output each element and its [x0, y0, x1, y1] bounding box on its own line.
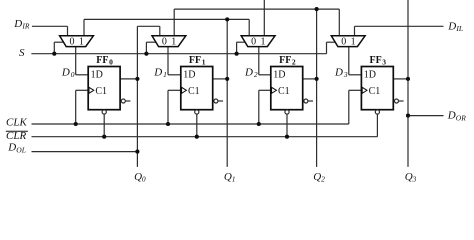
svg-text:D: D — [244, 66, 253, 78]
svg-text:CLK: CLK — [6, 116, 27, 128]
svg-text:S: S — [19, 47, 25, 59]
svg-text:IR: IR — [21, 22, 29, 31]
svg-text:1D: 1D — [273, 70, 285, 81]
svg-text:0: 0 — [341, 36, 346, 47]
svg-text:D: D — [13, 18, 22, 30]
svg-text:D: D — [447, 110, 456, 122]
svg-text:1D: 1D — [91, 70, 103, 81]
svg-text:0: 0 — [109, 58, 113, 67]
svg-text:1D: 1D — [364, 70, 376, 81]
svg-text:C1: C1 — [369, 86, 381, 97]
svg-text:1: 1 — [163, 70, 167, 79]
svg-text:Q: Q — [405, 171, 413, 183]
svg-text:D: D — [7, 142, 16, 154]
svg-text:FF: FF — [370, 55, 382, 66]
svg-text:1: 1 — [261, 36, 266, 47]
svg-text:0: 0 — [251, 36, 256, 47]
svg-text:FF: FF — [96, 55, 108, 66]
svg-text:CLR: CLR — [6, 130, 26, 142]
svg-text:1: 1 — [232, 175, 236, 184]
svg-text:0: 0 — [162, 36, 167, 47]
svg-text:0: 0 — [70, 36, 75, 47]
svg-text:3: 3 — [343, 70, 348, 79]
svg-text:0: 0 — [71, 70, 75, 79]
svg-text:2: 2 — [321, 175, 325, 184]
svg-text:D: D — [61, 66, 70, 78]
svg-text:Q: Q — [313, 171, 321, 183]
svg-text:1: 1 — [351, 36, 356, 47]
svg-text:Q: Q — [134, 171, 142, 183]
svg-text:1: 1 — [79, 36, 84, 47]
svg-text:Q: Q — [224, 171, 232, 183]
svg-text:FF: FF — [189, 55, 201, 66]
svg-text:C1: C1 — [188, 86, 200, 97]
svg-text:IL: IL — [455, 24, 463, 33]
svg-text:0: 0 — [142, 175, 146, 184]
svg-text:1: 1 — [171, 36, 176, 47]
svg-text:D: D — [447, 20, 456, 32]
svg-text:2: 2 — [292, 58, 296, 67]
svg-text:OR: OR — [456, 113, 466, 122]
svg-text:OL: OL — [16, 145, 26, 154]
svg-text:C1: C1 — [95, 86, 107, 97]
svg-text:C1: C1 — [278, 86, 290, 97]
svg-text:D: D — [334, 66, 343, 78]
svg-text:2: 2 — [254, 70, 258, 79]
svg-text:1D: 1D — [183, 70, 195, 81]
svg-text:3: 3 — [412, 175, 417, 184]
svg-text:D: D — [153, 66, 162, 78]
svg-text:FF: FF — [279, 55, 291, 66]
svg-text:1: 1 — [202, 58, 206, 67]
svg-text:3: 3 — [382, 58, 386, 67]
